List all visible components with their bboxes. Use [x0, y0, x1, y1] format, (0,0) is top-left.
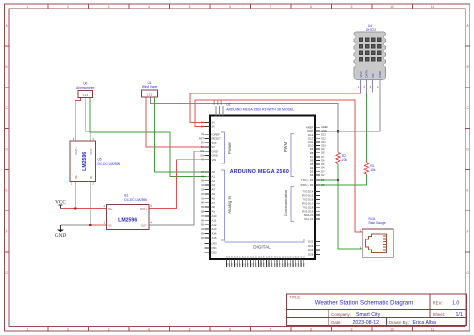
- svg-text:GND: GND: [321, 129, 327, 133]
- svg-text:Smart City: Smart City: [356, 312, 381, 318]
- svg-text:4: 4: [92, 137, 94, 141]
- svg-text:D: D: [5, 147, 8, 151]
- svg-text:RX0 ▷ D0: RX0 ▷ D0: [301, 183, 314, 187]
- svg-text:SCL 21: SCL 21: [304, 217, 314, 221]
- U2 right pin rows: [301, 125, 329, 256]
- svg-text:10k: 10k: [370, 168, 376, 172]
- svg-text:A3: A3: [212, 183, 216, 187]
- svg-text:D12: D12: [321, 136, 326, 140]
- svg-text:4: 4: [150, 221, 152, 225]
- svg-text:RST: RST: [199, 136, 205, 140]
- svg-text:87: 87: [201, 214, 204, 218]
- svg-text:3V: 3V: [201, 141, 204, 145]
- svg-text:GND: GND: [214, 100, 216, 105]
- svg-text:DC-DC LM2596: DC-DC LM2596: [98, 162, 121, 166]
- svg-text:Communication: Communication: [284, 190, 288, 216]
- wire anemometer OUT+ to U5: [75, 97, 80, 141]
- svg-text:1 2 3: 1 2 3: [147, 94, 153, 97]
- wire GND rail: [61, 224, 91, 226]
- svg-text:93: 93: [201, 188, 204, 192]
- svg-text:D9: D9: [321, 147, 325, 151]
- svg-text:3: 3: [108, 327, 110, 331]
- wire GND top to DHT GND: [320, 89, 380, 132]
- svg-text:A2: A2: [212, 179, 216, 183]
- svg-text:Drawn By:: Drawn By:: [389, 320, 409, 325]
- svg-text:RJ11: RJ11: [369, 217, 376, 221]
- svg-text:IN+: IN+: [108, 207, 113, 211]
- svg-text:A11: A11: [212, 218, 217, 222]
- svg-text:GN: GN: [200, 149, 204, 153]
- title block: [287, 294, 467, 326]
- B1 label: [124, 193, 147, 201]
- svg-text:A0: A0: [212, 170, 216, 174]
- wire VCC rail: [61, 207, 107, 209]
- svg-text:D1: D1: [321, 178, 325, 182]
- svg-text:94: 94: [201, 183, 204, 187]
- svg-text:IN-: IN-: [89, 175, 93, 179]
- U5 label: [98, 158, 121, 167]
- svg-text:G: G: [466, 271, 469, 275]
- svg-text:1: 1: [358, 85, 360, 89]
- svg-text:1/1: 1/1: [456, 312, 463, 318]
- voltage regulator U5: [70, 141, 96, 182]
- svg-text:Power: Power: [227, 141, 232, 153]
- svg-text:ARDUINO MEGA 2560 R3 WITH 3D M: ARDUINO MEGA 2560 R3 WITH 3D MODEL: [226, 108, 294, 112]
- svg-text:B1: B1: [124, 193, 128, 197]
- svg-text:D4: D4: [321, 166, 325, 170]
- svg-text:AREF: AREF: [321, 125, 328, 129]
- svg-text:D7: D7: [321, 155, 325, 159]
- U0 label: [76, 82, 95, 90]
- wire wind vane GND: [150, 97, 338, 131]
- svg-text:9: 9: [351, 327, 353, 331]
- svg-text:PWM: PWM: [283, 141, 288, 152]
- svg-text:4: 4: [148, 5, 150, 9]
- svg-text:VI: VI: [202, 158, 205, 162]
- junction GND rail: [89, 224, 91, 226]
- svg-text:D5: D5: [321, 162, 325, 166]
- svg-text:GND: GND: [218, 100, 220, 105]
- svg-text:84: 84: [201, 227, 204, 231]
- Communication bracket: [284, 187, 294, 222]
- svg-text:VIN: VIN: [212, 158, 217, 162]
- microcontroller U2 Arduino Mega 2560: [210, 116, 315, 259]
- svg-text:Anemometer: Anemometer: [76, 86, 95, 90]
- svg-text:ARDUINO MEGA 2560: ARDUINO MEGA 2560: [230, 169, 289, 175]
- svg-text:VCC: VCC: [55, 200, 66, 206]
- U1 label: [142, 81, 158, 89]
- svg-text:TX0 ▷ D1: TX0 ▷ D1: [301, 178, 314, 182]
- svg-text:11: 11: [431, 5, 435, 9]
- wire R1 bottom to RX0 D0: [320, 174, 367, 185]
- svg-text:86: 86: [201, 218, 204, 222]
- ground symbol: [55, 225, 66, 239]
- U5 pin names: [71, 137, 94, 186]
- svg-text:3: 3: [150, 204, 152, 208]
- svg-text:A9: A9: [212, 210, 216, 214]
- svg-text:1: 1: [27, 327, 29, 331]
- svg-text:51: 51: [304, 256, 306, 258]
- svg-text:DHT22: DHT22: [366, 28, 376, 32]
- wire rail B to rain gauge pin 1: [195, 100, 362, 232]
- svg-text:E: E: [6, 189, 8, 193]
- wind vane U1: [142, 90, 158, 97]
- junction D1 net: [337, 179, 339, 181]
- wire anemometer signal to A1: [90, 97, 205, 176]
- U4 label: [366, 24, 376, 32]
- svg-text:8: 8: [310, 327, 312, 331]
- svg-text:5V: 5V: [201, 121, 204, 125]
- U2 label: [226, 102, 294, 111]
- wire 5V rail A to DHT VCC: [190, 89, 361, 123]
- svg-text:D2: D2: [310, 173, 314, 177]
- svg-text:LM2596: LM2596: [82, 152, 88, 171]
- svg-text:6: 6: [229, 327, 231, 331]
- svg-text:1.0: 1.0: [452, 300, 459, 306]
- svg-text:Erica Alba: Erica Alba: [413, 320, 436, 326]
- svg-text:A1: A1: [212, 174, 216, 178]
- svg-text:5V: 5V: [201, 145, 204, 149]
- svg-text:5: 5: [189, 327, 191, 331]
- svg-text:G: G: [5, 271, 8, 275]
- svg-text:IN+: IN+: [74, 174, 78, 179]
- svg-text:A12: A12: [212, 223, 217, 227]
- svg-text:Sheet:: Sheet:: [433, 312, 445, 317]
- svg-text:GN: GN: [200, 153, 204, 157]
- svg-text:7: 7: [270, 5, 272, 9]
- svg-text:D11: D11: [321, 140, 326, 144]
- svg-text:D2: D2: [321, 173, 325, 177]
- svg-text:B: B: [6, 65, 8, 69]
- PWM bracket: [283, 134, 294, 177]
- svg-text:DIGITAL: DIGITAL: [253, 244, 271, 249]
- svg-text:3: 3: [73, 137, 75, 141]
- svg-text:OUT-: OUT-: [141, 223, 148, 227]
- svg-text:A8: A8: [212, 205, 216, 209]
- svg-text:4: 4: [148, 327, 150, 331]
- Power bracket: [221, 132, 232, 163]
- svg-text:91: 91: [201, 196, 204, 200]
- svg-text:DATA: DATA: [365, 70, 369, 78]
- svg-text:A10: A10: [212, 214, 217, 218]
- svg-text:D6: D6: [321, 159, 325, 163]
- svg-text:OUT+: OUT+: [74, 147, 78, 155]
- svg-text:A: A: [6, 24, 9, 28]
- svg-text:2: 2: [104, 204, 106, 208]
- wire TX0 D1 to R2 bottom: [320, 179, 339, 181]
- svg-text:9: 9: [351, 5, 353, 9]
- svg-text:U2: U2: [226, 102, 230, 106]
- svg-text:11: 11: [431, 327, 435, 331]
- svg-text:10: 10: [390, 5, 394, 9]
- anemometer U0: [78, 91, 93, 98]
- svg-text:D10: D10: [321, 144, 326, 148]
- svg-text:REV:: REV:: [433, 300, 443, 305]
- resistor R2 10k: [336, 153, 348, 164]
- svg-text:90: 90: [201, 201, 204, 205]
- svg-text:D8: D8: [321, 151, 325, 155]
- voltage regulator B1: [104, 204, 153, 230]
- svg-text:7: 7: [270, 327, 272, 331]
- svg-text:Rain Gauge: Rain Gauge: [369, 221, 386, 225]
- svg-text:D: D: [466, 147, 469, 151]
- svg-text:8: 8: [310, 5, 312, 9]
- svg-text:2: 2: [92, 182, 94, 186]
- svg-text:IN-: IN-: [108, 223, 112, 227]
- svg-text:F: F: [467, 230, 469, 234]
- svg-text:B: B: [467, 65, 469, 69]
- Analog In bracket: [221, 170, 232, 240]
- svg-text:1: 1: [71, 182, 73, 186]
- wire U5 IN+ to VCC rail: [74, 182, 76, 209]
- wire B1 OUT- to GND pin: [149, 151, 205, 225]
- svg-text:C: C: [5, 106, 8, 110]
- humidity sensor U4 DHT22: [352, 32, 388, 93]
- svg-text:TITLE:: TITLE:: [289, 295, 301, 300]
- wire wind vane VCC to 5V pin: [146, 97, 205, 147]
- svg-text:1: 1: [27, 5, 29, 9]
- svg-text:Weather Station Schematic Diag: Weather Station Schematic Diagram: [315, 299, 413, 306]
- svg-text:A4: A4: [212, 188, 216, 192]
- wire U5 IN- down: [89, 182, 91, 225]
- svg-text:OUT-: OUT-: [89, 148, 93, 155]
- U2 left pin rows: [199, 121, 221, 255]
- svg-text:LM2596: LM2596: [118, 218, 137, 224]
- svg-text:10: 10: [390, 327, 394, 331]
- svg-text:5V: 5V: [212, 125, 216, 129]
- svg-text:2: 2: [364, 85, 366, 89]
- svg-text:U5: U5: [98, 158, 102, 162]
- svg-text:Analog In: Analog In: [227, 195, 232, 213]
- svg-text:C: C: [466, 106, 469, 110]
- wire R2 bottom to rain gauge pin 3: [338, 164, 362, 249]
- rain gauge RJ11: [360, 228, 394, 257]
- svg-text:10k: 10k: [342, 158, 348, 162]
- svg-text:88: 88: [201, 210, 204, 214]
- svg-text:1 2 3: 1 2 3: [83, 94, 89, 97]
- junction GND net: [337, 130, 339, 132]
- svg-text:Date:: Date:: [331, 320, 341, 325]
- svg-text:D28: D28: [308, 253, 314, 257]
- svg-text:F: F: [6, 230, 8, 234]
- svg-text:A5: A5: [212, 192, 216, 196]
- svg-text:92: 92: [201, 192, 204, 196]
- svg-text:D0: D0: [321, 183, 325, 187]
- svg-text:GND: GND: [378, 70, 382, 78]
- svg-text:E: E: [467, 189, 469, 193]
- svg-text:A15: A15: [212, 236, 217, 240]
- svg-text:2: 2: [67, 327, 69, 331]
- wire anemometer GND to U5 OUT-: [85, 97, 90, 141]
- svg-text:3: 3: [108, 5, 110, 9]
- svg-text:95: 95: [201, 179, 204, 183]
- svg-text:A: A: [467, 24, 470, 28]
- svg-text:6: 6: [229, 5, 231, 9]
- svg-text:IO: IO: [201, 132, 204, 136]
- svg-text:5V: 5V: [201, 125, 204, 129]
- svg-text:D3: D3: [321, 169, 325, 173]
- svg-text:1: 1: [104, 221, 106, 225]
- U2 top pins: [214, 100, 223, 116]
- svg-text:5: 5: [189, 5, 191, 9]
- svg-text:2023-08-12: 2023-08-12: [353, 320, 380, 326]
- svg-text:82: 82: [201, 236, 204, 240]
- svg-text:GND: GND: [55, 233, 66, 239]
- svg-text:D13: D13: [321, 133, 326, 137]
- junction VCC rail: [74, 207, 76, 209]
- U2 bottom pin row DIGITAL: [226, 256, 305, 267]
- wire B1 OUT+ to VIN: [149, 160, 205, 209]
- svg-text:GND: GND: [221, 100, 223, 105]
- svg-text:3: 3: [370, 85, 372, 89]
- svg-text:D52: D52: [212, 250, 218, 254]
- svg-text:A14: A14: [212, 232, 217, 236]
- svg-text:VCC: VCC: [359, 70, 363, 77]
- svg-text:DC-DC LM2596: DC-DC LM2596: [124, 198, 147, 202]
- wire DHT DATA to R1: [365, 89, 367, 163]
- svg-text:2: 2: [67, 5, 69, 9]
- svg-text:A13: A13: [212, 227, 217, 231]
- wire R2 top lead: [337, 131, 339, 152]
- VCC symbol: [55, 200, 66, 209]
- wire GND rail to B1 IN-: [90, 224, 106, 226]
- svg-text:A6: A6: [212, 196, 216, 200]
- svg-text:A7: A7: [212, 201, 216, 205]
- RJ11 label: [369, 217, 386, 225]
- svg-text:4: 4: [377, 85, 379, 89]
- svg-text:83: 83: [201, 232, 204, 236]
- svg-text:Company:: Company:: [331, 312, 351, 317]
- resistor R1 10k: [364, 163, 376, 175]
- svg-text:OUT+: OUT+: [140, 207, 148, 211]
- DIGITAL bracket: [225, 239, 304, 250]
- svg-text:85: 85: [201, 223, 204, 227]
- svg-text:89: 89: [201, 205, 204, 209]
- wire wind vane signal to A0: [155, 97, 206, 172]
- svg-text:Wind Vane: Wind Vane: [142, 85, 158, 89]
